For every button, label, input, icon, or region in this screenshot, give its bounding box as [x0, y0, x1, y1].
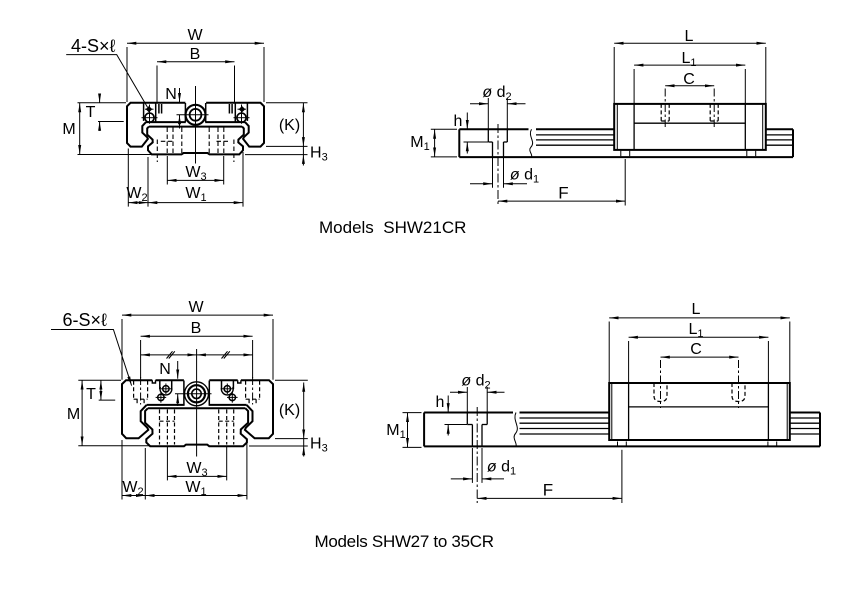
rail cross-section	[147, 127, 244, 155]
block side view outline	[609, 383, 790, 440]
svg-text:4-S×ℓ: 4-S×ℓ	[71, 36, 116, 56]
hole recess walls right	[221, 381, 223, 390]
nipple center line	[175, 393, 212, 395]
svg-text:L1: L1	[688, 321, 703, 340]
svg-text:h: h	[454, 113, 463, 130]
block body bottom edge	[634, 122, 745, 124]
dimension W	[127, 42, 264, 44]
hidden tapped holes in block side view	[654, 383, 667, 402]
svg-text:L1: L1	[681, 50, 696, 69]
block inner gap line	[146, 121, 186, 123]
svg-text:W1: W1	[185, 185, 206, 204]
hidden tapped holes in block side view	[660, 104, 662, 121]
tapped holes left pair	[163, 386, 169, 392]
return channel marks left	[158, 104, 160, 114]
block outline	[122, 380, 184, 438]
rail groove lines left of block	[520, 417, 610, 419]
svg-text:L: L	[685, 28, 694, 45]
grease nipple U1	[186, 105, 206, 125]
svg-text:C: C	[683, 71, 695, 88]
svg-text:B: B	[190, 46, 201, 63]
svg-text:M1: M1	[386, 422, 405, 441]
svg-text:H3: H3	[310, 145, 328, 164]
block side view outline	[614, 104, 766, 150]
end hole center lines	[140, 377, 142, 405]
dimension L	[609, 317, 790, 319]
svg-text:(K): (K)	[279, 117, 300, 134]
block outline	[127, 103, 185, 147]
depth diamond left	[146, 107, 151, 112]
leader wire to left tapped hole	[66, 55, 147, 108]
top notches	[152, 380, 241, 383]
svg-text:F: F	[543, 481, 553, 500]
counterbore hole	[487, 129, 489, 142]
hole cross lines right	[234, 117, 250, 119]
svg-text:T: T	[86, 386, 96, 403]
hole recess walls right	[234, 103, 236, 123]
hole recess walls left	[159, 381, 161, 390]
hidden rail bolt lines	[159, 410, 161, 445]
svg-text:M: M	[62, 121, 75, 138]
grease nipple U2	[185, 382, 209, 406]
counterbore hole	[466, 413, 468, 425]
svg-text:N: N	[165, 86, 177, 103]
leader wire to end tapped hole	[51, 330, 132, 386]
dimension W	[122, 314, 273, 316]
hidden end tapped hole right	[245, 381, 247, 399]
tapped hole left	[145, 113, 154, 122]
tapped hole right	[237, 113, 246, 122]
rail groove lines right of block	[790, 417, 820, 419]
rail side view outline	[423, 413, 425, 447]
counterbore center line	[497, 124, 499, 206]
nipple channel walls	[183, 381, 185, 405]
dimension B	[157, 61, 235, 63]
dimension B	[141, 335, 253, 337]
dimension C	[661, 356, 739, 358]
dimension C	[665, 85, 714, 87]
hole center lines	[664, 89, 666, 128]
hidden end tapped hole left	[133, 381, 135, 399]
rail groove lines right of block	[766, 134, 793, 136]
rail side view outline	[458, 129, 460, 157]
rail bolt hole marks	[620, 151, 622, 156]
return channel marks right	[228, 104, 230, 114]
svg-text:ø d1: ø d1	[510, 167, 539, 186]
center line	[196, 349, 198, 457]
svg-text:N: N	[159, 361, 171, 378]
block inner gap line	[147, 404, 185, 406]
hole recess walls left	[143, 103, 145, 121]
svg-text:T: T	[86, 104, 96, 121]
end plate lines	[628, 383, 630, 440]
block body bottom edge	[629, 406, 769, 408]
grease nipple center line	[177, 114, 209, 116]
svg-text:W: W	[187, 27, 203, 44]
svg-text:B: B	[191, 320, 202, 337]
svg-text:6-S×ℓ: 6-S×ℓ	[63, 310, 108, 330]
rail break line	[530, 129, 533, 157]
end plate lines	[633, 104, 635, 150]
svg-text:L: L	[692, 301, 701, 318]
svg-text:ø d2: ø d2	[461, 373, 490, 392]
svg-text:F: F	[558, 184, 568, 203]
hole center lines	[660, 360, 662, 408]
equality slash marks	[167, 351, 175, 358]
tapped holes right pair	[224, 386, 230, 392]
svg-text:M: M	[67, 406, 80, 423]
hole cross lines	[161, 388, 172, 390]
hidden rail bolt lines	[166, 128, 168, 155]
counterbore center line	[476, 407, 478, 503]
dimension L1	[634, 64, 745, 66]
rail groove lines left of block	[536, 134, 614, 136]
svg-text:W2: W2	[126, 185, 147, 204]
rail bolt hole marks	[617, 442, 619, 446]
nipple channel walls	[184, 103, 186, 122]
svg-text:W: W	[188, 299, 204, 316]
dimension L	[614, 42, 766, 44]
svg-text:H3: H3	[310, 436, 328, 455]
svg-text:Models SHW21CR: Models SHW21CR	[319, 218, 466, 237]
rail break line	[514, 413, 517, 447]
dimension L1	[629, 336, 769, 338]
svg-text:h: h	[436, 394, 445, 411]
rail cross-section	[145, 408, 248, 446]
center line	[195, 86, 197, 164]
svg-text:C: C	[690, 341, 702, 358]
svg-text:M1: M1	[410, 134, 429, 153]
svg-text:ø d1: ø d1	[487, 459, 516, 478]
equal-split dimension line	[141, 354, 197, 356]
depth diamond right	[239, 107, 244, 112]
hole cross lines left	[142, 117, 158, 119]
svg-text:Models SHW27 to 35CR: Models SHW27 to 35CR	[315, 532, 494, 551]
svg-text:(K): (K)	[279, 402, 300, 419]
